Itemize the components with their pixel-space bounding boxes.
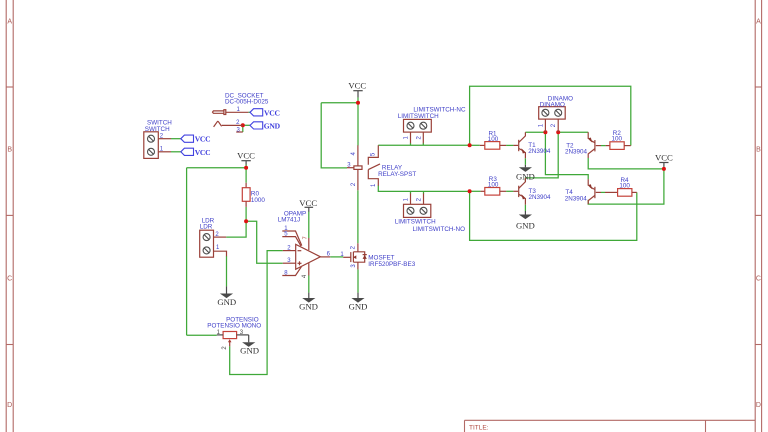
switch SW1 body [144, 119, 172, 158]
mosfet Q1 [343, 243, 415, 269]
COMPONENTS-CENTER [278, 80, 417, 311]
svg-text:VCC: VCC [195, 135, 211, 144]
wire T2 base to R2 [601, 145, 606, 147]
svg-text:B: B [756, 147, 761, 154]
VCC flag at switch pin1 [181, 148, 211, 157]
COMPONENTS-LEFT [144, 92, 281, 355]
svg-text:LM741J: LM741J [278, 217, 300, 224]
wire node to R3 [470, 190, 481, 192]
relay switch pin 5 [368, 145, 378, 164]
wire R3 to T3 base [506, 190, 513, 192]
wire switch pin1 to flag [171, 151, 181, 153]
transistor T1 [513, 132, 550, 158]
svg-text:A: A [7, 19, 12, 26]
relay switch pin 1 [368, 170, 378, 187]
svg-text:VCC: VCC [195, 148, 211, 157]
wire dinamo pin2 node to T2 emitter [558, 131, 588, 133]
wire T2 collector to VCC-right [588, 158, 664, 169]
svg-text:VCC: VCC [264, 108, 280, 117]
frame right border lines [755, 0, 761, 432]
junction R0 bottom node [244, 219, 248, 223]
junction VCC right node [662, 167, 666, 171]
wire T1 emitter to ground [524, 158, 526, 165]
ground below T1 [516, 165, 535, 182]
svg-text:GND: GND [217, 297, 236, 307]
potentiometer POTENSIO body [207, 316, 261, 338]
resistor R2 [606, 130, 631, 149]
svg-text:LIMITSWITCH: LIMITSWITCH [398, 113, 439, 120]
junction NC rail node [468, 143, 472, 147]
dc socket pin 2 [222, 120, 243, 126]
limit switch NO pin 1 [403, 193, 410, 204]
ground below opamp [299, 293, 318, 312]
svg-text:GND: GND [349, 302, 368, 312]
wire dc pin2 node to flag [243, 124, 250, 126]
VCC flag at switch pin2 [181, 135, 211, 144]
svg-text:1000: 1000 [251, 197, 266, 204]
wire T1 collector to dinamo pin1 node [525, 131, 545, 133]
op-amp pin 6 output [320, 252, 330, 258]
svg-text:VCC: VCC [348, 80, 366, 90]
op-amp pin 5 [282, 232, 301, 246]
svg-text:VCC: VCC [299, 198, 317, 208]
relay pin 3 [347, 163, 354, 169]
LDR pin 1 [214, 245, 227, 256]
potentiometer pin 3 [237, 330, 249, 336]
potentiometer pin 1 [217, 330, 224, 336]
svg-text:LDR: LDR [200, 224, 213, 231]
svg-text:100: 100 [488, 182, 499, 189]
svg-text:RELAY-SPST: RELAY-SPST [378, 171, 416, 178]
mosfet pin 1 gate [340, 252, 344, 258]
VCC supply at opamp [299, 198, 317, 212]
dinamo M1 body [539, 95, 573, 119]
wire R0 bottom to node [245, 207, 247, 221]
svg-text:POTENSIO MONO: POTENSIO MONO [207, 322, 261, 329]
op-amp pin 8 [282, 267, 301, 277]
wire pot wiper to opamp pin2 [230, 251, 283, 375]
svg-text:GND: GND [264, 121, 281, 130]
op-amp pin 1 [282, 226, 302, 246]
resistor R3 [481, 176, 507, 195]
op-amp pin 4 [302, 263, 309, 278]
svg-text:TITLE:: TITLE: [469, 425, 489, 432]
junction dc ground node [241, 123, 245, 127]
transistor T3 [513, 178, 551, 205]
op-amp pin 7 [303, 236, 309, 250]
wire relay loop left [321, 103, 347, 168]
svg-text:2N3904: 2N3904 [528, 148, 551, 155]
ground below mosfet [349, 293, 368, 312]
wire top loop [470, 86, 631, 145]
GND flag at dc pin2 [250, 121, 281, 130]
svg-text:IRF520PBF-BE3: IRF520PBF-BE3 [368, 261, 415, 268]
relay K1 coil [354, 164, 417, 178]
ground below LDR [217, 286, 236, 307]
limit switch NC body [398, 106, 466, 132]
wire dc pin1 to flag [248, 111, 250, 113]
wire switch pin2 to flag [171, 138, 181, 140]
limit switch NC pin 1 [404, 132, 411, 143]
wire opamp out to mosfet gate [330, 256, 343, 258]
wire VCC-mid rail [321, 97, 358, 103]
wire NC rail [378, 144, 469, 146]
frame left row letters [7, 19, 12, 410]
wire node to opamp pin3 [246, 221, 283, 263]
junction NO rail node [468, 189, 472, 193]
wire node to R1 [470, 144, 480, 146]
wire bottom loop [470, 191, 637, 240]
wire VCC-right down and to T4 collector [588, 167, 664, 205]
svg-text:VCC: VCC [237, 150, 255, 160]
resistor R0 [242, 183, 265, 207]
VCC flag at dc pin1 [250, 108, 280, 117]
svg-text:100: 100 [619, 183, 630, 190]
junction VCC left node [244, 166, 248, 170]
wire NO switch stubs green tips [411, 191, 424, 193]
VCC supply right [655, 153, 673, 167]
wire LDR pin1 to ground [226, 256, 228, 286]
op-amp U1 [278, 210, 321, 269]
wire relay pin2 to mosfet drain [357, 190, 359, 243]
svg-text:B: B [7, 147, 12, 154]
VCC supply mid [348, 80, 366, 97]
svg-text:D: D [7, 402, 12, 409]
dinamo pin 2 [551, 119, 558, 132]
svg-text:2N3904: 2N3904 [565, 149, 588, 156]
title block [465, 420, 756, 432]
wire VCC-left rail to pot column [187, 167, 247, 169]
svg-text:A: A [756, 19, 761, 26]
switch pin 2 [158, 134, 171, 140]
VCC supply left [237, 150, 255, 164]
wire R0 top [245, 164, 247, 183]
ground at potentiometer pin 3 [240, 335, 259, 356]
svg-text:C: C [7, 276, 12, 283]
wire left column down [186, 168, 188, 335]
ground below T3 [516, 211, 535, 230]
transistor T2 [565, 132, 601, 158]
svg-text:C: C [756, 276, 761, 283]
svg-text:7: 7 [303, 236, 309, 239]
svg-text:2N3904: 2N3904 [529, 194, 552, 201]
wire VCC node to relay pin4 [357, 103, 359, 146]
op-amp pin 3 [283, 258, 296, 264]
mosfet pin 2 drain [351, 245, 357, 249]
wire to pot pin1 [187, 334, 217, 336]
wire relay pin1 to NO rail [378, 186, 469, 192]
wire mosfet source to ground [357, 269, 359, 292]
limit switch NC pin 2 [416, 132, 423, 143]
wire opamp pin7 supply [308, 212, 310, 239]
limit switch NO body [395, 204, 465, 233]
junction dinamo pin1 node [543, 130, 547, 134]
potentiometer wiper pin 2 [222, 339, 231, 349]
JUNCTIONS [241, 101, 666, 224]
mosfet pin 3 source [351, 264, 357, 268]
op-amp pin 2 [283, 246, 296, 252]
svg-text:LIMITSWITCH-NO: LIMITSWITCH-NO [413, 226, 466, 233]
svg-text:100: 100 [488, 136, 499, 143]
LDR R5 body [200, 217, 215, 257]
relay pin 4 [351, 145, 358, 166]
svg-text:2N3904: 2N3904 [565, 195, 588, 202]
relay switch blade [368, 164, 380, 170]
switch pin 1 [158, 147, 171, 153]
wire opamp pin4 to ground [308, 276, 310, 293]
limit switch NO pin 2 [417, 193, 424, 204]
resistor R1 [480, 130, 506, 149]
svg-text:D: D [756, 402, 761, 409]
COMPONENTS-RIGHT [395, 95, 673, 233]
frame left border lines [6, 0, 13, 432]
svg-text:SWITCH: SWITCH [145, 126, 170, 133]
LDR pin 2 [214, 232, 227, 238]
wire T3 emitter to ground [524, 205, 526, 211]
dc socket pin 1 [226, 107, 249, 113]
dc socket pin 3 [236, 127, 243, 133]
frame right row letters [756, 19, 761, 410]
wire R1 to T1 base [506, 144, 513, 146]
relay pin 2 [351, 169, 358, 190]
svg-text:GND: GND [299, 302, 318, 312]
svg-text:DINAMO: DINAMO [540, 102, 565, 109]
svg-text:LIMITSWITCH: LIMITSWITCH [395, 219, 436, 226]
resistor R4 [605, 177, 637, 196]
wire T4 base to R4 [601, 191, 605, 193]
dc socket J1 body [213, 92, 269, 127]
wire dinamo pin1 node to T4 emitter [545, 132, 588, 179]
svg-text:VCC: VCC [655, 153, 673, 163]
transistor T4 [565, 179, 601, 204]
wire dinamo pin2 node to T3 collector [525, 132, 558, 181]
svg-text:100: 100 [612, 136, 623, 143]
wire node down to LDR pin2 [226, 221, 246, 237]
dinamo pin 1 [538, 119, 545, 132]
svg-text:DC-005H-D025: DC-005H-D025 [225, 98, 269, 105]
svg-text:GND: GND [516, 220, 535, 230]
wire dc pin3 up to node [242, 125, 244, 132]
junction VCC mid node [356, 101, 360, 105]
wire NC switch stubs green tips [411, 143, 424, 145]
svg-text:GND: GND [240, 346, 259, 356]
junction dinamo pin2 node [556, 130, 560, 134]
